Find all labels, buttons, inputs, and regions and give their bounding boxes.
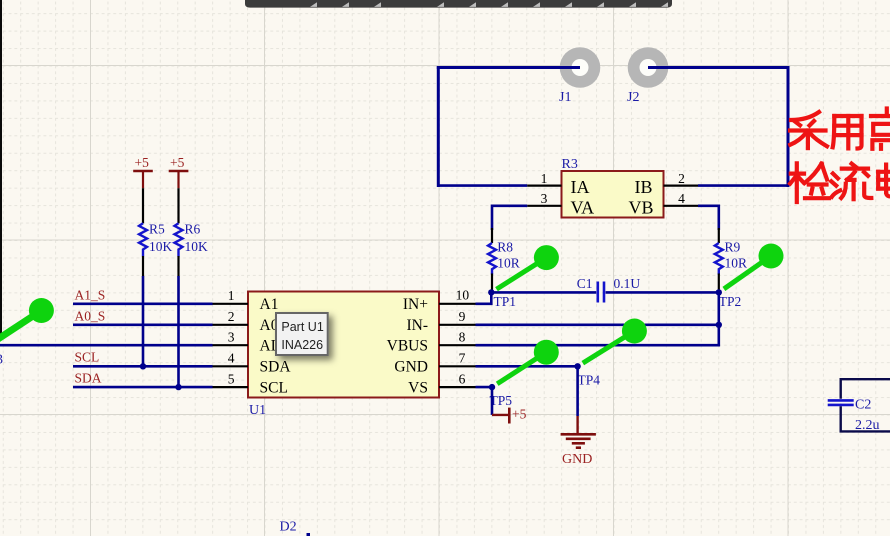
wire R5 down to SCL row (142, 276, 145, 366)
svg-text:INA226: INA226 (281, 338, 323, 352)
U1 pin 2 (213, 324, 249, 326)
svg-text:IN-: IN- (406, 317, 428, 334)
capacitor C1 (577, 276, 641, 303)
power +5 at TP5 (492, 406, 527, 423)
R3 pin 4 (664, 205, 699, 207)
svg-text:IB: IB (635, 177, 653, 197)
red annotation text row1 采用高 (790, 109, 890, 149)
svg-text:R8: R8 (497, 240, 513, 255)
svg-text:SDA: SDA (75, 370, 102, 385)
wire TP4 down (576, 366, 579, 416)
U1 pin 1 (213, 303, 249, 305)
svg-text:VBUS: VBUS (387, 338, 428, 355)
resistor R3 body (562, 171, 664, 218)
svg-text:TP1: TP1 (494, 294, 517, 309)
svg-text:VB: VB (628, 198, 653, 218)
svg-text:TP2: TP2 (719, 294, 742, 309)
wire J2 to right vertical (648, 66, 790, 69)
svg-text:9: 9 (459, 309, 466, 324)
wire top loop right vertical (787, 66, 790, 187)
U1 pin 7 (439, 365, 476, 367)
svg-text:TP4: TP4 (578, 373, 601, 388)
capacitor C2 (828, 379, 890, 433)
connector J1 pad (560, 47, 601, 88)
wire R6 down to SDA row (177, 276, 180, 387)
svg-text:R6: R6 (185, 222, 201, 237)
node R6/SDA junction (175, 384, 181, 390)
svg-text:VS: VS (408, 380, 428, 397)
node R5/SCL junction (140, 363, 146, 369)
highlight marker TP1 (497, 245, 559, 289)
svg-text:6: 6 (459, 371, 466, 386)
highlight marker TP5 (497, 340, 559, 384)
node TP2 junction (716, 289, 722, 295)
U1 pin 3 (213, 344, 249, 346)
U1 pin 5 (213, 386, 249, 388)
D2 pin stub at bottom edge (307, 533, 311, 536)
svg-text:+5: +5 (135, 155, 150, 170)
svg-text:R3: R3 (562, 157, 578, 172)
highlight marker TP2 (724, 244, 784, 289)
svg-text:Part U1: Part U1 (281, 320, 323, 334)
U1 pin 8 (439, 344, 476, 346)
svg-text:2: 2 (678, 171, 685, 186)
svg-text:U1: U1 (249, 403, 266, 418)
resistor R6 (175, 188, 209, 276)
wire TP5 down (491, 387, 494, 415)
power +5 for R5 (133, 155, 153, 188)
tooltip Part U1 / INA226 (276, 313, 328, 355)
svg-text:IA: IA (571, 177, 590, 197)
svg-text:3: 3 (541, 191, 548, 206)
wire IN+ up to TP1 (476, 292, 492, 303)
wire TP2 down right column (476, 292, 719, 345)
svg-text:A1: A1 (260, 296, 279, 313)
svg-text:GND: GND (394, 359, 428, 376)
wire top horizontal to J1 (437, 66, 580, 69)
svg-text:A0_S: A0_S (75, 309, 106, 324)
svg-text:10K: 10K (185, 239, 209, 254)
svg-text:10R: 10R (497, 256, 520, 271)
svg-text:C1: C1 (577, 276, 593, 291)
wire GND row to TP4 (476, 365, 578, 368)
svg-text:1: 1 (228, 288, 235, 303)
node TP4 junction (574, 363, 580, 369)
wire TP1 to C1 left (491, 291, 596, 294)
highlight marker left (0, 298, 54, 343)
svg-text:J1: J1 (559, 90, 571, 105)
svg-text:J2: J2 (627, 90, 639, 105)
svg-text:+5: +5 (512, 406, 527, 421)
R3 pin 3 (527, 205, 561, 207)
wire A0_S (73, 323, 213, 326)
U1 pin 10 (439, 303, 476, 305)
svg-text:10K: 10K (149, 239, 173, 254)
svg-text:3: 3 (0, 353, 3, 368)
svg-text:4: 4 (228, 351, 235, 366)
svg-text:4: 4 (678, 191, 685, 206)
svg-text:IN+: IN+ (403, 296, 428, 313)
sheet border line left (0, 0, 2, 338)
svg-text:SCL: SCL (75, 350, 100, 365)
wire R3 pin1 to left vertical (438, 184, 527, 187)
svg-text:3: 3 (228, 329, 235, 344)
svg-text:1: 1 (541, 171, 548, 186)
svg-text:A1_S: A1_S (75, 288, 106, 303)
node IN- junction (716, 322, 722, 328)
wire SCL (73, 365, 213, 368)
wire A1_S (73, 302, 213, 305)
power +5 for R6 (169, 155, 189, 188)
connector J2 pad (628, 47, 669, 88)
wire R3 pin3 down to R8 (492, 206, 527, 230)
component U1 (248, 292, 439, 398)
svg-text:7: 7 (459, 351, 466, 366)
svg-text:SDA: SDA (260, 359, 292, 376)
svg-text:10: 10 (456, 288, 470, 303)
svg-text:GND: GND (562, 452, 592, 467)
svg-text:R9: R9 (725, 240, 741, 255)
wire SDA (73, 386, 213, 389)
wire VS row to TP5 (476, 386, 493, 389)
resistor R5 (139, 188, 173, 276)
wire top loop left vertical (437, 66, 440, 187)
svg-text:2.2u: 2.2u (855, 418, 880, 433)
R3 pin 2 (664, 185, 699, 187)
svg-text:C2: C2 (855, 398, 871, 413)
U1 pin 6 (439, 386, 476, 388)
red annotation text row2 检流电 (790, 163, 890, 202)
R3 pin 1 (527, 185, 561, 187)
node TP1 junction (488, 289, 494, 295)
top toolbar fragment (245, 0, 672, 8)
svg-text:VA: VA (571, 198, 595, 218)
wire IN- row (476, 323, 719, 326)
wire row3 full width (0, 344, 213, 347)
svg-text:+5: +5 (170, 155, 185, 170)
resistor R8 (488, 228, 520, 292)
wire R3 pin4 down to R9 (698, 206, 719, 230)
U1 pin 9 (439, 324, 476, 326)
svg-text:5: 5 (228, 371, 235, 386)
svg-text:R5: R5 (149, 222, 165, 237)
ground symbol GND (561, 416, 596, 467)
wire R3 pin2 to right vertical (698, 184, 788, 187)
svg-text:D2: D2 (280, 520, 297, 535)
svg-text:10R: 10R (725, 256, 748, 271)
wire C1 right to TP2 (606, 291, 719, 294)
svg-text:2: 2 (228, 309, 235, 324)
node TP5 junction (489, 384, 495, 390)
resistor R9 (715, 228, 747, 292)
svg-text:SCL: SCL (260, 380, 288, 397)
highlight marker TP4 (583, 319, 647, 364)
U1 pin 4 (213, 365, 249, 367)
svg-text:0.1U: 0.1U (614, 276, 641, 291)
svg-text:8: 8 (459, 329, 466, 344)
